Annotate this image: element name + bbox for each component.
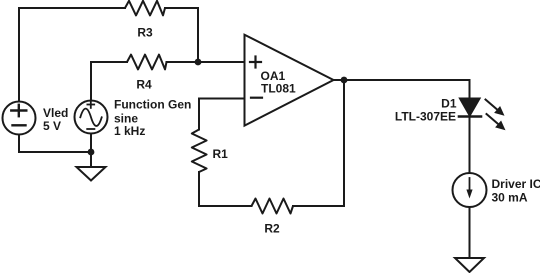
resistor R2: [252, 199, 294, 214]
current source Driver IC: [453, 173, 487, 207]
wire: op-amp output to node C: [334, 79, 345, 81]
svg-text:5 V: 5 V: [43, 119, 61, 133]
svg-text:D1: D1: [441, 97, 457, 111]
LED D1 (diode triangle): [460, 99, 480, 116]
LED light arrow 2: [487, 114, 506, 130]
node B junction dot: [88, 149, 95, 156]
svg-text:TL081: TL081: [261, 82, 296, 96]
node C junction dot: [341, 77, 348, 84]
svg-text:R3: R3: [137, 26, 153, 40]
ground (right): [455, 258, 484, 272]
svg-text:R4: R4: [136, 78, 152, 92]
svg-text:LTL-307EE: LTL-307EE: [395, 110, 456, 124]
resistor R3: [125, 1, 165, 16]
wire: R1 bottom to R2: [199, 172, 252, 206]
resistor R4: [127, 55, 167, 70]
wire: current source to ground: [469, 207, 471, 258]
wire: R3 right end down to node A: [165, 8, 198, 61]
wire: R2 right end up to output node C: [293, 81, 344, 206]
resistor R1: [192, 130, 207, 173]
function generator source: [75, 101, 108, 134]
svg-text:Driver IC: Driver IC: [492, 177, 540, 191]
LED light arrow 1: [486, 100, 505, 116]
wire: Vled top up and right to R3: [19, 8, 125, 102]
svg-text:1 kHz: 1 kHz: [114, 124, 145, 138]
op-amp OA1 TL081: [245, 35, 334, 126]
wire: node C right and down to LED D1: [344, 80, 470, 98]
wire: R4 to op-amp plus input through node A: [167, 61, 245, 63]
wire: function generator bottom to node B: [90, 134, 92, 153]
LED cathode bar: [459, 115, 481, 118]
svg-text:R1: R1: [213, 147, 229, 161]
voltage source Vled: [3, 102, 36, 135]
wire: LED to current source: [469, 118, 471, 173]
wire: Vled bottom to ground node B: [19, 135, 91, 153]
ground (left): [77, 167, 106, 181]
svg-text:Vled: Vled: [43, 106, 68, 120]
node A junction dot: [195, 59, 202, 66]
svg-text:Function Gen: Function Gen: [114, 98, 191, 112]
svg-text:30 mA: 30 mA: [492, 191, 528, 205]
wire: op-amp minus input left and down to R1: [199, 99, 244, 130]
svg-text:R2: R2: [264, 222, 280, 236]
wire: function generator top to R4: [91, 62, 127, 101]
wire: node B down to ground: [90, 152, 92, 167]
